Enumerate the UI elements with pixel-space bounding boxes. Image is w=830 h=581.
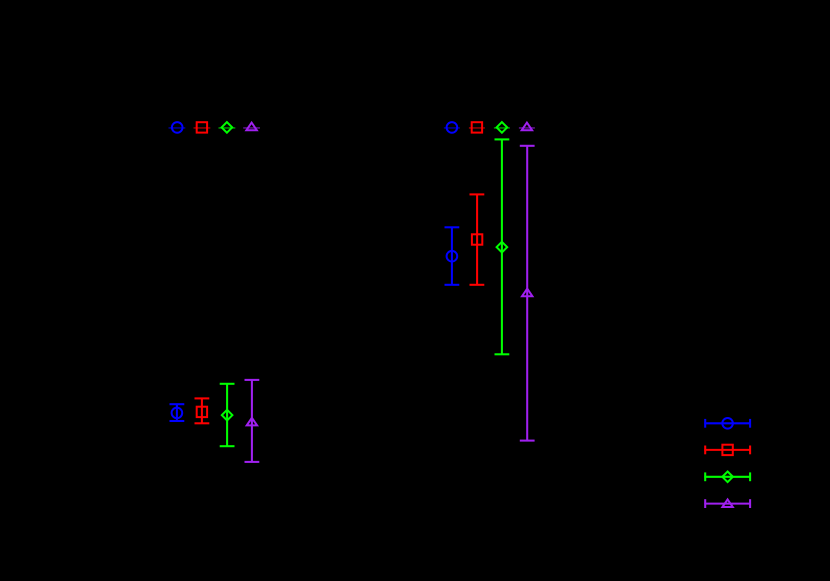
legend green sample (704, 472, 751, 483)
group1 green point (tiny errorbar cap) (219, 122, 236, 133)
group2 purple errorbar (520, 146, 535, 441)
legend purple sample (704, 499, 751, 508)
group1 purple point (tiny errorbar cap) (243, 123, 260, 131)
group1 green errorbar (220, 384, 235, 446)
group2 red top point (tiny errorbar cap) (469, 122, 485, 132)
group1 blue point (tiny errorbar cap) (169, 122, 186, 133)
group2 purple top point (tiny errorbar cap) (519, 123, 535, 131)
group1 purple errorbar (245, 380, 260, 462)
group2 blue top point (tiny errorbar cap) (444, 122, 460, 133)
group2 green errorbar (495, 139, 510, 354)
group2 green top point (tiny errorbar cap) (494, 122, 510, 133)
group1 red point (tiny errorbar cap) (194, 122, 211, 132)
group2 red errorbar (470, 194, 485, 284)
group1 red errorbar (195, 398, 210, 423)
legend blue sample (704, 418, 751, 429)
group2 blue errorbar (445, 227, 460, 284)
legend red sample (704, 445, 751, 455)
group1 blue errorbar (170, 404, 185, 421)
